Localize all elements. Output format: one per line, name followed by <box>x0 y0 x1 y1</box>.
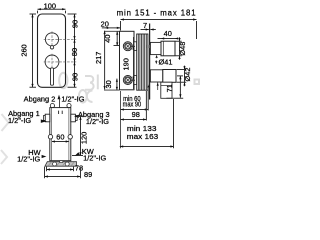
svg-text:260: 260 <box>20 44 29 56</box>
sleeve 2 <box>150 70 162 82</box>
connector stubs <box>134 42 137 51</box>
svg-text:1/2"-IG: 1/2"-IG <box>86 117 109 126</box>
right chain dims 90/80/90 <box>68 14 77 87</box>
ribbed block <box>137 34 148 90</box>
svg-text:40: 40 <box>164 29 172 38</box>
hex union 2 <box>123 76 132 85</box>
svg-text:40: 40 <box>103 34 112 42</box>
dim 89 <box>45 167 81 178</box>
dim 190 <box>130 37 135 89</box>
lever (side) <box>161 82 172 98</box>
dim 217 <box>104 31 106 90</box>
svg-text:190: 190 <box>121 58 130 70</box>
left stub (Abgang 1) <box>45 114 50 122</box>
svg-text:90: 90 <box>70 20 79 28</box>
svg-text:min 151 - max 181: min 151 - max 181 <box>117 9 197 18</box>
lever <box>51 68 54 85</box>
sleeve 1 <box>150 42 161 54</box>
knob 1 <box>161 41 175 56</box>
svg-text:Ø41: Ø41 <box>159 57 173 66</box>
wall plate line <box>149 24 151 100</box>
dim O42 <box>177 66 187 87</box>
svg-text:60: 60 <box>56 133 64 142</box>
svg-text:Abgang 2: Abgang 2 <box>24 95 56 104</box>
dim 71 <box>166 76 183 98</box>
svg-text:max 90: max 90 <box>123 99 142 108</box>
svg-text:98: 98 <box>132 110 140 119</box>
handle circle 2 (volume lever) <box>45 55 59 69</box>
dim 100 top <box>38 9 66 13</box>
svg-text:Ø42: Ø42 <box>183 68 192 82</box>
body box <box>120 31 135 90</box>
svg-text:1/2"-IG: 1/2"-IG <box>61 95 84 104</box>
body <box>50 104 54 108</box>
dim 260 left <box>30 14 37 87</box>
plate <box>38 14 66 87</box>
svg-text:30: 30 <box>104 80 113 88</box>
svg-text:Ø48: Ø48 <box>178 42 187 56</box>
dim 120 <box>72 117 83 156</box>
mid bosses <box>48 135 52 139</box>
svg-text:max 163: max 163 <box>127 132 158 141</box>
dim 40 (upper left) <box>114 31 123 46</box>
watermark <box>1 73 199 164</box>
svg-text:120: 120 <box>79 132 88 144</box>
dim 30 (lower left) <box>116 79 118 91</box>
svg-text:1/2"-IG: 1/2"-IG <box>83 153 106 162</box>
svg-text:80: 80 <box>70 48 79 56</box>
svg-text:100: 100 <box>44 1 56 10</box>
hex union 1 <box>123 42 132 51</box>
dim 78 <box>47 167 74 172</box>
svg-text:78: 78 <box>75 163 83 172</box>
svg-text:1/2"-IG: 1/2"-IG <box>8 116 31 125</box>
right stub (Abgang 3) <box>71 114 76 122</box>
handle circle 1 (thermostat) <box>45 33 58 46</box>
svg-text:217: 217 <box>94 52 103 64</box>
svg-text:89: 89 <box>84 170 92 179</box>
svg-text:1/2"-IG: 1/2"-IG <box>17 155 40 164</box>
handle 2 body <box>163 70 176 83</box>
Abgang 3 label <box>74 115 79 118</box>
svg-text:90: 90 <box>70 73 79 81</box>
svg-text:71: 71 <box>165 84 174 92</box>
bottom flange <box>45 162 77 167</box>
dim O48 <box>175 37 181 60</box>
